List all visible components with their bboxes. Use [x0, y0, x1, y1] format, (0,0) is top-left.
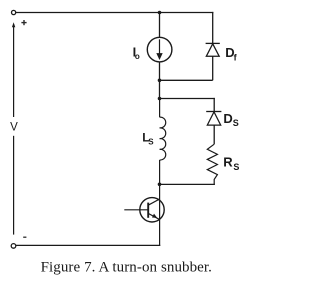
- transistor Q1: [124, 198, 164, 222]
- diode Df: [206, 43, 220, 56]
- svg-text:R: R: [223, 155, 233, 170]
- wire bottom rail: [16, 244, 160, 246]
- wire center below inductor: [159, 160, 161, 184]
- node junction Ds: [158, 97, 162, 101]
- node junction Df: [158, 79, 162, 83]
- wire Df branch upper: [212, 12, 214, 44]
- wire Df bottom horizontal: [160, 79, 213, 81]
- wire center top: [159, 13, 161, 38]
- wire Ds branch upper: [213, 98, 215, 112]
- svg-text:o: o: [135, 52, 140, 61]
- label -: [23, 236, 26, 238]
- node top junction: [158, 11, 162, 15]
- wire Ds top horizontal: [160, 98, 215, 100]
- wire center between junctions: [159, 80, 161, 98]
- wire Ds to Rs: [213, 125, 215, 144]
- terminal top-left (+): [12, 10, 16, 14]
- svg-text:S: S: [148, 137, 154, 146]
- resistor Rs: [207, 144, 217, 185]
- label +: [21, 20, 26, 25]
- diode Ds: [206, 112, 221, 126]
- wire collector/emitter column: [159, 184, 161, 246]
- svg-text:D: D: [223, 111, 232, 126]
- wire Df branch lower: [212, 56, 214, 80]
- wire top rail: [16, 12, 213, 14]
- wire Rs bottom horizontal: [160, 183, 215, 185]
- terminal bottom-left (-): [11, 244, 16, 249]
- inductor Ls: [160, 117, 166, 160]
- current source I0: [147, 37, 172, 62]
- svg-text:S: S: [233, 162, 239, 172]
- svg-text:Figure 7. A turn-on snubber.: Figure 7. A turn-on snubber.: [41, 260, 212, 276]
- voltage arrow (up): [12, 22, 15, 117]
- svg-text:V: V: [10, 122, 18, 134]
- svg-text:S: S: [233, 118, 239, 128]
- node junction Rs bottom: [158, 183, 162, 187]
- wire center above inductor: [159, 99, 161, 118]
- wire center below source: [159, 62, 161, 80]
- wire left lower: [13, 136, 15, 235]
